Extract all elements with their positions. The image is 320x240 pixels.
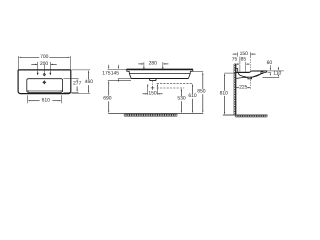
plan view: bowl bottom ledge line [29, 90, 61, 92]
side view: rim extension line to dims [267, 70, 284, 72]
dimension 850 vertical [202, 72, 203, 75]
supply dashed line upper [157, 82, 193, 84]
front view: basin left end face [127, 69, 132, 79]
extension line rim right [193, 71, 203, 73]
dimension 225 wall to drain [236, 87, 239, 89]
extension line boss bottom left [108, 80, 131, 82]
dimension 110 side view [277, 67, 279, 69]
dimension 200 faucet holes [31, 63, 37, 65]
side view: front rim curl [261, 72, 263, 74]
faucet hole left arrow [37, 62, 39, 73]
dimension 700 top [17, 56, 19, 70]
arrows 75/85 [237, 63, 240, 65]
drain connection cross [151, 87, 155, 89]
wall hatching loops [234, 64, 236, 115]
floor side view [223, 114, 268, 116]
plan view: bowl corner circle left [27, 90, 29, 92]
front view: drain boss [149, 78, 156, 80]
svg-text:810: 810 [220, 90, 229, 96]
dimension 150 front [143, 93, 148, 95]
side view: deck top line rear [236, 71, 250, 73]
svg-text:460: 460 [85, 79, 94, 85]
side view: step to front plateau [250, 71, 252, 72]
dimension 610 bottom [26, 95, 28, 103]
svg-text:700: 700 [40, 54, 49, 60]
front view: basin right end face [188, 69, 192, 79]
wall line side view [235, 64, 237, 116]
svg-text:60: 60 [267, 60, 273, 66]
plan view: drain cross symbol [42, 80, 46, 84]
dimension 530 vertical [181, 88, 182, 91]
deck level extension at 60 dim [268, 72, 272, 74]
side view: front plateau rim line [252, 70, 267, 72]
side view: underside slope [236, 73, 263, 79]
plan view: inner bowl 610x277 [27, 79, 63, 93]
floor line front view [108, 112, 203, 114]
svg-text:610: 610 [188, 93, 197, 99]
side view: front face [264, 71, 267, 73]
plan view: bowl corner circle right [61, 90, 63, 92]
dimension 280 tap holes front [138, 63, 143, 65]
front view: basin underside line [131, 77, 188, 79]
dimension 810 vertical [224, 72, 236, 74]
plan view: basin outer rim 700x460 [18, 70, 71, 94]
svg-text:850: 850 [197, 89, 206, 95]
faucet hole right arrow [49, 62, 51, 73]
floor hatch front view [124, 114, 177, 116]
dimension 690 text and lower line [108, 101, 110, 111]
extension line rim top left [108, 68, 127, 70]
dimension 610 vertical [192, 84, 193, 87]
ticks for 75/85 tap hole axes [239, 57, 241, 64]
drain centerline front view [152, 81, 154, 90]
front view: basin rim lower line [129, 72, 190, 74]
svg-text:150: 150 [148, 91, 157, 97]
svg-text:277: 277 [73, 81, 82, 87]
svg-text:530: 530 [177, 96, 186, 102]
dimension 150 side view [233, 53, 237, 55]
dimension 277 inner depth [63, 78, 78, 80]
front view: basin rim top edge [127, 68, 193, 70]
dimension 175 vertical line [108, 65, 110, 67]
extension line underside left [118, 77, 131, 79]
supply dashed line lower [157, 87, 184, 89]
svg-text:145: 145 [111, 70, 120, 76]
dimension 460 overall depth [72, 69, 91, 71]
side view: bowl interior [238, 73, 261, 77]
faucet hole middle marker [43, 65, 45, 73]
dimension 145 vertical line [117, 65, 119, 67]
svg-text:85: 85 [241, 57, 247, 63]
floor hatch side view loops [235, 115, 267, 117]
svg-text:110: 110 [273, 71, 281, 77]
dimension 150 ticks with up arrows [147, 84, 148, 87]
svg-text:690: 690 [103, 96, 112, 102]
svg-text:610: 610 [42, 98, 51, 104]
svg-text:75: 75 [232, 57, 238, 63]
svg-text:175: 175 [102, 70, 111, 76]
svg-text:225: 225 [239, 85, 248, 91]
svg-text:280: 280 [149, 60, 158, 66]
side view drain centerline [249, 77, 251, 89]
side view: back upstand [236, 69, 238, 72]
